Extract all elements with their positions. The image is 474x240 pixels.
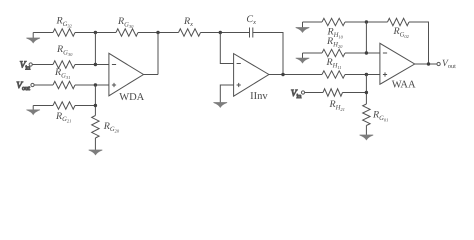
- node N8: [365, 20, 368, 23]
- node N1: [94, 31, 97, 34]
- wire plus-bus WAA: [365, 75, 367, 105]
- svg-text:RG02: RG02: [393, 26, 410, 39]
- wire: [303, 52, 323, 54]
- node N6: [94, 104, 97, 107]
- terminal Vout left: [31, 83, 34, 86]
- resistor RG02: [388, 18, 410, 25]
- wire: [75, 105, 95, 107]
- wire: [75, 32, 116, 34]
- node N11: [365, 91, 368, 94]
- svg-text:RG31: RG31: [54, 67, 70, 80]
- wire plus-bus WDA: [94, 85, 96, 116]
- svg-text:Cx: Cx: [246, 14, 256, 26]
- resistor RG31: [53, 81, 75, 88]
- wire: [33, 32, 53, 34]
- wire: [365, 126, 367, 136]
- svg-text:RG21: RG21: [55, 111, 71, 124]
- svg-text:RG30: RG30: [117, 16, 134, 29]
- wire: [75, 84, 109, 86]
- wire: [34, 84, 53, 86]
- wire IInv minus bus: [220, 33, 233, 64]
- ground G7 right bottom: [360, 135, 374, 140]
- resistor RG20 vertical: [92, 116, 99, 139]
- ground G6 right rowB: [296, 53, 310, 63]
- ground G5 right rowA: [296, 22, 310, 32]
- wire Cx feedback: [253, 33, 283, 75]
- resistor RH21: [323, 89, 343, 96]
- svg-text:RG01: RG01: [372, 110, 388, 123]
- wire: [345, 74, 380, 76]
- capacitor Cx: [250, 28, 253, 38]
- resistor RH11: [322, 71, 345, 78]
- ground G3 bottom-left: [89, 150, 103, 155]
- svg-text:WDA: WDA: [119, 92, 144, 103]
- wire: [32, 64, 53, 66]
- wire: [75, 64, 109, 66]
- wire: [345, 52, 380, 54]
- ground G1 top-left: [26, 33, 40, 43]
- svg-text:RH11: RH11: [326, 57, 342, 70]
- op-amp U2 IInv: [234, 54, 269, 97]
- resistor RG21: [53, 102, 75, 109]
- ground G4 IInv: [214, 103, 228, 108]
- wire: [303, 21, 323, 23]
- terminal Vin right: [301, 91, 304, 94]
- node N2: [156, 31, 159, 34]
- wire: [33, 105, 53, 107]
- resistor RG32: [53, 29, 75, 36]
- resistor RG01 vertical: [363, 104, 370, 126]
- resistor Rx: [179, 29, 201, 36]
- wire: [305, 92, 323, 94]
- wire: [138, 32, 179, 34]
- ground G2 row4 left: [26, 106, 40, 115]
- svg-text:WAA: WAA: [392, 80, 416, 91]
- wire minus-bus WDA: [94, 33, 96, 65]
- terminal Vin left: [29, 63, 32, 66]
- op-amp U1 WDA: [109, 53, 144, 96]
- node N7: [281, 73, 284, 76]
- op-amp U3 WAA: [380, 43, 415, 84]
- wire IInv output: [269, 74, 322, 76]
- node N9: [365, 51, 368, 54]
- wire: [201, 32, 250, 34]
- node N4: [94, 63, 97, 66]
- resistor RG30 input: [53, 61, 75, 68]
- svg-text:Vout: Vout: [442, 59, 456, 70]
- svg-text:RG30: RG30: [56, 44, 73, 57]
- wire WDA output: [144, 74, 159, 76]
- terminal Vout right: [437, 62, 440, 65]
- wire minus-bus WAA: [365, 22, 367, 53]
- svg-text:Rx: Rx: [183, 16, 193, 28]
- wire: [343, 92, 367, 94]
- resistor RH10: [322, 18, 345, 25]
- node N3: [219, 31, 222, 34]
- wire WDA output feedback: [157, 33, 159, 75]
- wire IInv plus to ground: [220, 85, 233, 103]
- node N5: [94, 83, 97, 86]
- wire WAA output: [415, 63, 437, 65]
- svg-text:IInv: IInv: [250, 91, 268, 102]
- svg-text:RG20: RG20: [103, 121, 120, 134]
- wire RG02 to output: [409, 22, 429, 64]
- wire: [345, 21, 388, 23]
- resistor RH20: [322, 49, 345, 56]
- node N10: [365, 73, 368, 76]
- svg-text:RH21: RH21: [329, 99, 345, 112]
- wire: [94, 138, 96, 150]
- svg-text:Vout: Vout: [16, 81, 30, 92]
- svg-text:RG32: RG32: [56, 16, 73, 29]
- svg-text:Vin: Vin: [291, 89, 303, 100]
- resistor RG30 feedback: [116, 29, 138, 36]
- node N12: [427, 62, 430, 65]
